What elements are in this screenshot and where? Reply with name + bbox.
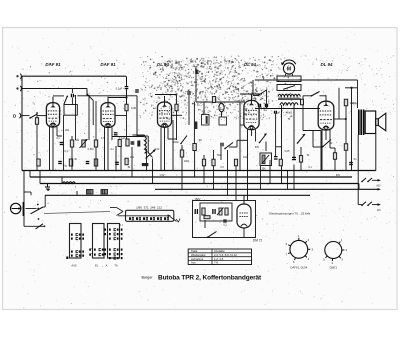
switch S1 xyxy=(29,114,37,119)
wire xyxy=(247,130,249,201)
wire xyxy=(313,146,323,148)
wire xyxy=(26,208,37,210)
svg-text:1-2, 4-5: 1-2, 4-5 xyxy=(214,257,224,261)
svg-text:220p: 220p xyxy=(173,141,179,144)
switch S3 xyxy=(87,95,93,101)
node xyxy=(345,118,347,120)
wire xyxy=(300,147,302,156)
wire xyxy=(213,166,215,189)
pin circle xyxy=(107,124,110,127)
potentiometer arrow xyxy=(146,150,156,159)
wire xyxy=(137,135,148,137)
wire xyxy=(213,150,215,159)
wire xyxy=(229,146,237,148)
transformer T1 primary xyxy=(278,94,300,96)
inductor L1 xyxy=(63,182,76,184)
connector block 1 xyxy=(70,224,85,259)
resistor xyxy=(344,99,347,106)
wire xyxy=(252,80,254,96)
wire xyxy=(172,114,183,116)
capacitor xyxy=(213,209,215,214)
svg-text:60V: 60V xyxy=(376,185,381,187)
tube V4 DL 94 xyxy=(244,94,259,129)
svg-text:0,05: 0,05 xyxy=(285,150,290,153)
wire xyxy=(104,128,106,171)
wire xyxy=(237,139,248,141)
svg-text:Wiedergabe: Wiedergabe xyxy=(191,253,206,257)
connector block 3 xyxy=(108,224,123,260)
svg-text:A: A xyxy=(106,264,108,268)
svg-text:Aus: Aus xyxy=(191,261,196,265)
wire xyxy=(63,140,65,171)
wire xyxy=(111,128,113,141)
capacitor xyxy=(195,70,198,75)
tube V6 DM 71 xyxy=(237,196,251,229)
wire xyxy=(136,96,138,136)
wire xyxy=(107,98,109,103)
wire xyxy=(172,120,174,171)
svg-text:DM 71: DM 71 xyxy=(253,239,263,243)
svg-text:300: 300 xyxy=(130,142,135,145)
wire xyxy=(251,130,253,137)
wire xyxy=(38,115,47,117)
wire xyxy=(255,79,358,81)
capacitor xyxy=(60,143,64,145)
switch S12 xyxy=(36,224,44,229)
resistor xyxy=(37,159,40,166)
wire xyxy=(243,228,245,238)
speaker LS xyxy=(365,111,386,134)
wire xyxy=(239,102,241,171)
switch S9 xyxy=(361,178,372,182)
wire xyxy=(375,134,377,171)
switch S11 xyxy=(31,204,44,220)
wire xyxy=(39,171,41,184)
resistor xyxy=(118,140,121,147)
wire xyxy=(345,106,347,144)
wire xyxy=(146,149,148,171)
wire xyxy=(276,146,282,148)
wire xyxy=(285,74,287,76)
svg-text:90V: 90V xyxy=(336,174,341,177)
wire xyxy=(164,128,166,171)
wire xyxy=(194,151,196,178)
wire xyxy=(22,88,87,90)
wire xyxy=(36,124,38,170)
wire xyxy=(227,150,229,195)
resistor xyxy=(94,159,97,166)
wire xyxy=(76,191,78,195)
node arrow xyxy=(378,188,381,191)
inductor record-play head xyxy=(132,135,148,154)
capacitor electrolytic 5u xyxy=(219,103,224,112)
wire xyxy=(95,101,97,140)
wire xyxy=(74,95,76,97)
wire xyxy=(377,188,379,190)
svg-text:AUS: AUS xyxy=(71,264,77,268)
svg-text:7-8: 7-8 xyxy=(214,261,218,265)
wire xyxy=(181,157,183,189)
wire xyxy=(287,171,289,190)
wire xyxy=(24,225,45,227)
tube socket diagram DAF91, DL94 xyxy=(286,234,314,264)
box indicator unit outer xyxy=(193,201,256,238)
capacitor xyxy=(195,209,197,214)
svg-text:DAF91, DL94: DAF91, DL94 xyxy=(290,266,307,270)
svg-text:10M: 10M xyxy=(131,107,136,110)
switch S15 xyxy=(180,136,187,145)
wire bus ground xyxy=(22,170,376,172)
svg-text:0,02: 0,02 xyxy=(155,148,160,151)
wire bus 4 xyxy=(155,188,378,190)
capacitor xyxy=(125,87,129,89)
transformer T2 output xyxy=(359,110,364,136)
wire xyxy=(56,127,58,136)
node xyxy=(86,94,88,96)
wire xyxy=(131,147,133,177)
svg-text:TA: TA xyxy=(114,264,117,268)
svg-text:DM71: DM71 xyxy=(330,266,338,270)
tube socket diagram DM71 xyxy=(323,238,347,265)
resistor xyxy=(70,140,73,147)
wire xyxy=(52,127,54,171)
wire xyxy=(303,95,312,97)
wire xyxy=(240,124,244,126)
trimmer capacitor xyxy=(87,190,94,195)
transformer T1 secondary xyxy=(280,103,298,105)
wire xyxy=(160,128,162,171)
table text xyxy=(191,249,237,265)
svg-text:1M: 1M xyxy=(198,139,201,142)
wire xyxy=(204,220,206,228)
capacitor xyxy=(292,157,296,159)
capacitor xyxy=(71,94,73,98)
wire xyxy=(293,165,295,190)
wire xyxy=(126,76,128,86)
svg-text:M: M xyxy=(287,67,291,73)
wire xyxy=(112,136,144,138)
switch S14 xyxy=(322,140,331,148)
resistor xyxy=(126,139,129,146)
wire xyxy=(43,206,45,208)
svg-text:DAF 91: DAF 91 xyxy=(45,62,61,67)
resistor dark xyxy=(142,163,149,166)
svg-text:4,7M: 4,7M xyxy=(352,103,357,106)
resistor xyxy=(202,208,205,215)
tube V2 DAF 91 xyxy=(101,97,115,128)
resistor xyxy=(195,122,198,130)
wire xyxy=(302,109,304,131)
wire xyxy=(176,111,178,140)
resistor xyxy=(125,104,128,111)
wire xyxy=(188,95,190,125)
switch bar mechanical xyxy=(118,210,180,222)
capacitor xyxy=(58,162,62,164)
wire xyxy=(181,145,183,150)
svg-text:Aufnahme: Aufnahme xyxy=(191,257,204,261)
wire xyxy=(300,162,302,171)
resistor xyxy=(212,97,215,103)
capacitor xyxy=(266,104,268,108)
capacitor xyxy=(221,143,223,147)
wire xyxy=(95,147,97,171)
capacitor xyxy=(135,90,139,92)
wire xyxy=(269,160,271,184)
node arrow xyxy=(378,179,381,182)
svg-text:DAF 91: DAF 91 xyxy=(100,62,116,67)
resistor xyxy=(125,158,128,165)
switch S10 xyxy=(361,202,372,206)
wire xyxy=(320,95,327,97)
wire xyxy=(240,93,262,95)
wire xyxy=(312,131,314,148)
switch bar contacts xyxy=(129,217,169,220)
resistor xyxy=(35,118,38,125)
wire xyxy=(77,95,137,97)
capacitor xyxy=(86,162,90,164)
wire xyxy=(275,114,277,158)
wire xyxy=(345,151,347,171)
wire xyxy=(23,216,25,226)
svg-text:60V: 60V xyxy=(255,146,260,149)
wire xyxy=(203,155,205,159)
switch S8 xyxy=(259,134,267,144)
wire xyxy=(71,136,73,140)
wire xyxy=(115,115,127,117)
capacitor xyxy=(115,162,119,164)
resistor xyxy=(69,159,72,166)
wire xyxy=(155,94,177,96)
wire xyxy=(71,89,73,94)
resistor xyxy=(234,159,237,166)
wire xyxy=(53,95,64,97)
wire xyxy=(21,115,30,117)
trimmer capacitor xyxy=(101,190,108,195)
switch S13 xyxy=(207,232,217,239)
wire xyxy=(255,108,320,110)
wire xyxy=(334,118,346,120)
node xyxy=(44,225,46,227)
wire xyxy=(193,102,195,144)
svg-text:Kontakte: Kontakte xyxy=(214,249,225,253)
box filter xyxy=(219,117,227,125)
pin circle xyxy=(163,124,166,127)
wire xyxy=(293,105,295,160)
node arrow xyxy=(378,203,381,206)
connector pins xyxy=(66,229,106,260)
wire xyxy=(358,184,360,190)
wire xyxy=(176,95,178,105)
wire xyxy=(195,66,197,102)
wire xyxy=(351,88,353,171)
wire left rail xyxy=(21,76,23,170)
microphone input xyxy=(11,202,25,216)
wire xyxy=(358,204,362,206)
wire xyxy=(71,147,73,171)
table switch contacts xyxy=(188,249,251,265)
wire xyxy=(30,192,32,195)
svg-text:1/80 371 248 212: 1/80 371 248 212 xyxy=(136,205,162,209)
svg-text:150V: 150V xyxy=(194,197,200,201)
wire xyxy=(120,147,122,171)
wire mechanical link xyxy=(44,212,110,214)
box filter xyxy=(202,115,210,126)
terminal plug A xyxy=(16,74,21,79)
wire xyxy=(334,159,336,171)
wire xyxy=(253,95,258,97)
svg-text:DL 94: DL 94 xyxy=(157,62,169,67)
pin circle xyxy=(52,124,55,127)
resistor xyxy=(202,159,205,166)
connector box xyxy=(277,76,301,82)
wire loop xyxy=(200,203,232,221)
wire xyxy=(265,142,267,152)
wire xyxy=(63,115,65,140)
svg-text:0,1µF: 0,1µF xyxy=(116,88,123,91)
svg-text:0,1µF: 0,1µF xyxy=(119,137,126,140)
switch S2 xyxy=(64,96,68,105)
switch S6 xyxy=(257,90,266,96)
pin circle xyxy=(250,126,253,129)
box bias unit xyxy=(64,105,77,116)
node xyxy=(36,112,38,114)
resistor xyxy=(94,140,97,147)
wire xyxy=(292,74,294,76)
resistor xyxy=(301,99,304,105)
wire xyxy=(260,166,262,190)
resistor xyxy=(344,144,347,151)
svg-text:DL 94: DL 94 xyxy=(321,62,333,67)
svg-text:Gleichspannungen 70…25 kHz: Gleichspannungen 70…25 kHz xyxy=(269,212,311,216)
wire xyxy=(220,145,222,161)
resistor xyxy=(299,156,302,163)
potentiometer box xyxy=(260,153,272,166)
capacitor xyxy=(114,133,118,135)
wire xyxy=(23,171,25,203)
wire xyxy=(115,146,117,171)
wire xyxy=(152,159,154,184)
pin circle xyxy=(325,127,328,130)
switch S7 xyxy=(311,92,320,97)
resistor xyxy=(193,144,196,151)
transformer T1 core xyxy=(278,98,301,99)
wire xyxy=(255,130,257,142)
wire xyxy=(86,89,88,94)
wire bus 5 xyxy=(45,194,310,196)
svg-text:0,5M: 0,5M xyxy=(88,147,94,151)
wire xyxy=(236,140,238,147)
wire xyxy=(334,148,336,153)
wire xyxy=(57,135,62,137)
resistor xyxy=(204,216,210,219)
wire xyxy=(320,131,322,171)
capacitor xyxy=(224,219,226,222)
wire xyxy=(61,177,63,184)
resistor xyxy=(279,159,282,166)
wire xyxy=(266,90,268,109)
potentiometer xyxy=(217,208,224,216)
wire xyxy=(345,87,358,89)
wire xyxy=(338,88,340,119)
connector block 2 xyxy=(89,224,104,259)
motor M xyxy=(281,60,296,74)
node xyxy=(125,96,127,98)
svg-text:0,1: 0,1 xyxy=(64,149,68,153)
wire xyxy=(24,191,31,193)
wire xyxy=(357,80,359,108)
wire xyxy=(44,195,46,207)
switch box S5 xyxy=(277,85,301,91)
wire xyxy=(29,171,31,178)
wire xyxy=(303,130,321,132)
wire xyxy=(281,105,283,184)
terminal D xyxy=(13,113,21,118)
wire xyxy=(107,128,109,171)
svg-text:12V: 12V xyxy=(377,210,382,212)
terminal plug B xyxy=(16,86,21,91)
wire xyxy=(203,102,205,115)
wire xyxy=(221,112,223,117)
wire xyxy=(92,100,94,125)
capacitor xyxy=(259,104,261,108)
wire xyxy=(372,179,379,181)
wire xyxy=(325,130,327,140)
svg-text:Taste: Taste xyxy=(191,249,198,253)
resistor xyxy=(212,159,215,166)
wire xyxy=(203,166,205,184)
capacitor xyxy=(131,142,135,144)
resistor xyxy=(175,104,178,111)
wire xyxy=(329,130,331,148)
wire bus 2 xyxy=(30,176,352,178)
svg-text:Butoba TPR 2, Koffertonbandger: Butoba TPR 2, Koffertonbandgerät xyxy=(158,274,262,281)
wire xyxy=(108,97,127,99)
svg-text:4,7k: 4,7k xyxy=(101,137,106,140)
svg-text:40kΩ: 40kΩ xyxy=(286,112,292,115)
wire xyxy=(167,128,169,140)
wire xyxy=(196,101,245,103)
wire xyxy=(49,127,51,171)
svg-text:Burger: Burger xyxy=(141,276,153,280)
tube V5 DL 94 xyxy=(318,95,334,130)
potentiometer xyxy=(80,139,88,148)
resistor xyxy=(333,153,336,160)
svg-text:2-3, 5-6, 8-9, 11-12: 2-3, 5-6, 8-9, 11-12 xyxy=(214,253,237,257)
svg-text:50µ: 50µ xyxy=(63,164,68,168)
lever chevron xyxy=(110,208,123,216)
node xyxy=(86,94,88,96)
wire xyxy=(75,95,77,140)
wire bus 3 xyxy=(40,183,359,185)
wire xyxy=(168,138,176,140)
wire xyxy=(22,75,126,77)
wire xyxy=(372,204,379,206)
capacitor xyxy=(137,141,140,147)
capacitor xyxy=(187,92,191,94)
ground xyxy=(45,184,51,192)
svg-text:DL 94: DL 94 xyxy=(244,62,256,67)
wire xyxy=(330,147,335,149)
capacitor xyxy=(275,111,277,114)
resistor xyxy=(225,208,228,215)
switch S4 xyxy=(224,143,233,150)
node xyxy=(350,87,352,89)
wire xyxy=(88,95,90,140)
wire xyxy=(71,98,73,105)
svg-text:100p: 100p xyxy=(184,160,190,163)
wire xyxy=(302,96,304,109)
resistor xyxy=(180,150,183,157)
